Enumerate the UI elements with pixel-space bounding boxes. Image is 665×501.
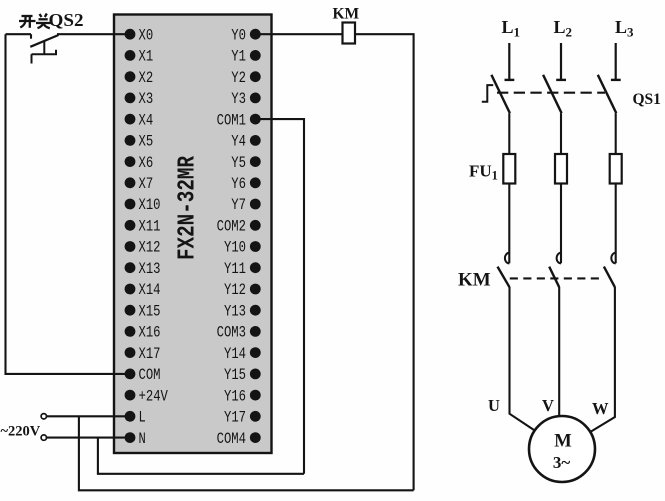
terminal pin Y5 [250, 156, 261, 167]
svg-text:Y11: Y11 [224, 260, 246, 278]
svg-text:X0: X0 [139, 26, 154, 44]
terminal pin COM3 [250, 326, 261, 337]
svg-text:Y6: Y6 [231, 175, 246, 193]
svg-text:FX2N-32MR: FX2N-32MR [175, 156, 202, 260]
svg-text:COM1: COM1 [217, 111, 246, 129]
wire feed L1 [508, 43, 510, 80]
PLC module FX2N-32MR [114, 15, 272, 454]
svg-text:W: W [592, 399, 609, 418]
terminal pin Y11 [250, 262, 261, 273]
fuse FU1-1 [503, 154, 515, 184]
svg-text:X13: X13 [139, 260, 161, 278]
terminal pin Y7 [250, 199, 261, 210]
svg-text:Y13: Y13 [224, 302, 246, 320]
wire N [47, 437, 130, 439]
contact arc KM-2 [557, 253, 561, 264]
terminal pin X0 [125, 29, 136, 40]
wire switch to X0 [57, 33, 130, 35]
contactor coil KM [343, 23, 356, 44]
svg-text:X2: X2 [139, 69, 154, 87]
svg-text:Y2: Y2 [231, 69, 246, 87]
terminal pin Y16 [250, 390, 261, 401]
terminal pin +24V [125, 390, 136, 401]
svg-text:M: M [554, 432, 571, 452]
switch QS2 [6, 33, 32, 35]
terminal pin X6 [125, 156, 136, 167]
terminal pin COM4 [250, 432, 261, 443]
svg-text:X14: X14 [139, 281, 161, 299]
wire U phase [510, 287, 535, 431]
svg-text:X15: X15 [139, 302, 161, 320]
svg-text:Y1: Y1 [231, 48, 246, 66]
svg-text:L3: L3 [615, 17, 634, 40]
svg-text:COM4: COM4 [217, 430, 246, 448]
wire QS1 to fuse L3 [615, 113, 617, 156]
contact blade KM-1 [498, 267, 510, 288]
svg-text:L2: L2 [554, 17, 573, 40]
KM linkage dashed [510, 277, 604, 279]
svg-text:~220V: ~220V [1, 424, 41, 440]
wire X0 loop to COM [6, 34, 131, 374]
svg-text:X12: X12 [139, 239, 161, 257]
terminal pin X11 [125, 220, 136, 231]
svg-text:X16: X16 [139, 324, 161, 342]
svg-text:X10: X10 [139, 196, 161, 214]
terminal pin X7 [125, 177, 136, 188]
wire QS1 to fuse L1 [508, 113, 510, 156]
terminal pin Y12 [250, 284, 261, 295]
svg-text:COM3: COM3 [217, 324, 246, 342]
terminal pin Y13 [250, 305, 261, 316]
terminal pin X5 [125, 135, 136, 146]
terminal pin COM2 [250, 220, 261, 231]
QS1 linkage dashed [497, 92, 605, 94]
switch blade QS1-1 [491, 75, 510, 113]
terminal pin X3 [125, 93, 136, 104]
svg-text:X4: X4 [139, 111, 154, 129]
svg-text:L: L [139, 409, 146, 427]
wire feed L2 [560, 43, 562, 80]
terminal pin X13 [125, 262, 136, 273]
label 开关 (hand-drawn hanzi) [19, 14, 51, 29]
svg-text:X6: X6 [139, 154, 154, 172]
contact arc KM-3 [611, 253, 615, 264]
terminal pin X17 [125, 347, 136, 358]
svg-text:COM: COM [139, 366, 161, 384]
terminal pin X15 [125, 305, 136, 316]
terminal pin Y4 [250, 135, 261, 146]
wire W phase [590, 287, 615, 432]
svg-text:X1: X1 [139, 48, 154, 66]
contact blade KM-3 [604, 267, 615, 288]
svg-text:L1: L1 [502, 17, 521, 40]
terminal circle N [41, 435, 46, 440]
terminal pin X2 [125, 71, 136, 82]
wire V phase [558, 287, 560, 416]
terminal pin N [125, 432, 136, 443]
wire fuse to KM contact L3 [615, 184, 617, 264]
wire Y0 to coil [255, 33, 342, 35]
svg-text:Y3: Y3 [231, 90, 246, 108]
contact blade KM-2 [549, 267, 559, 288]
terminal pin X10 [125, 199, 136, 210]
svg-text:Y17: Y17 [224, 409, 246, 427]
svg-text:Y12: Y12 [224, 281, 246, 299]
terminal pin Y0 [250, 29, 261, 40]
terminal pin COM1 [250, 114, 261, 125]
terminal pin Y1 [250, 50, 261, 61]
svg-text:X17: X17 [139, 345, 161, 363]
fixed contact bar L3 [611, 79, 621, 81]
terminal pin Y10 [250, 241, 261, 252]
terminal pin Y15 [250, 369, 261, 380]
wire L tap to KM return bus [79, 416, 414, 490]
svg-text:Y14: Y14 [224, 345, 246, 363]
terminal pin X1 [125, 50, 136, 61]
svg-text:V: V [542, 396, 554, 415]
terminal pin Y14 [250, 347, 261, 358]
wire COM1 to N bus [255, 119, 304, 474]
svg-text:X5: X5 [139, 133, 154, 151]
wire QS1 to fuse L2 [560, 113, 562, 156]
svg-text:Y4: Y4 [231, 133, 246, 151]
svg-text:N: N [139, 430, 146, 448]
svg-text:X11: X11 [139, 218, 161, 236]
svg-text:COM2: COM2 [217, 218, 246, 236]
wire N tap to COM1 bus [98, 438, 304, 474]
svg-text:QS2: QS2 [49, 10, 84, 30]
wire L [47, 415, 130, 417]
terminal circle L [41, 414, 46, 419]
QS1 handle mark [482, 85, 493, 102]
svg-text:Y15: Y15 [224, 366, 246, 384]
wire fuse to KM contact L1 [508, 184, 510, 264]
switch blade QS1-3 [598, 75, 617, 113]
fixed contact bar L2 [556, 79, 566, 81]
svg-text:QS1: QS1 [633, 91, 661, 108]
fuse FU1-3 [610, 154, 622, 184]
terminal pin Y17 [250, 411, 261, 422]
svg-text:+24V: +24V [139, 387, 169, 405]
svg-text:3~: 3~ [553, 453, 571, 472]
wire fuse to KM contact L2 [560, 184, 562, 264]
svg-text:FU1: FU1 [469, 162, 498, 183]
terminal pin X16 [125, 326, 136, 337]
svg-text:Y16: Y16 [224, 387, 246, 405]
wire coil to return bus [355, 34, 414, 490]
svg-text:Y10: Y10 [224, 239, 246, 257]
fixed contact bar L1 [505, 79, 515, 81]
terminal pin L [125, 411, 136, 422]
terminal pin X4 [125, 114, 136, 125]
terminal pin Y6 [250, 177, 261, 188]
svg-text:X7: X7 [139, 175, 154, 193]
terminal pin X12 [125, 241, 136, 252]
svg-text:Y5: Y5 [231, 154, 246, 172]
terminal pin Y2 [250, 71, 261, 82]
svg-text:U: U [488, 396, 500, 415]
svg-text:Y0: Y0 [231, 26, 246, 44]
motor M [529, 416, 595, 482]
svg-text:X3: X3 [139, 90, 154, 108]
wire feed L3 [615, 43, 617, 80]
fuse FU1-2 [555, 154, 567, 184]
switch blade QS1-2 [543, 75, 562, 113]
terminal pin Y3 [250, 93, 261, 104]
terminal pin COM [125, 369, 136, 380]
svg-text:KM: KM [458, 270, 491, 291]
svg-text:KM: KM [333, 5, 360, 22]
svg-text:Y7: Y7 [231, 196, 246, 214]
contact arc KM-1 [505, 253, 509, 264]
terminal pin X14 [125, 284, 136, 295]
